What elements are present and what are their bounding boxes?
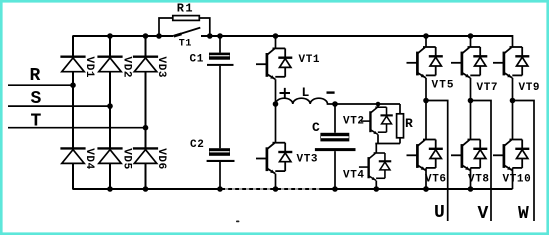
svg-text:VD5: VD5: [121, 148, 133, 170]
svg-text:R1: R1: [177, 2, 194, 16]
svg-text:VT8: VT8: [468, 174, 490, 186]
svg-text:U: U: [434, 203, 445, 223]
svg-text:R: R: [30, 66, 41, 86]
svg-text:L: L: [302, 85, 310, 100]
svg-text:VT5: VT5: [432, 79, 455, 91]
svg-text:S: S: [31, 89, 42, 109]
svg-text:V: V: [478, 204, 489, 224]
svg-text:T1: T1: [179, 39, 192, 50]
svg-text:VT1: VT1: [299, 54, 321, 66]
svg-text:VD3: VD3: [155, 57, 167, 79]
svg-text:T: T: [31, 112, 42, 132]
svg-text:C2: C2: [190, 139, 204, 151]
svg-text:VT3: VT3: [297, 154, 319, 166]
svg-text:C1: C1: [190, 54, 204, 66]
svg-text:VD1: VD1: [83, 57, 95, 79]
svg-text:VT2: VT2: [343, 116, 365, 128]
svg-text:VD6: VD6: [155, 148, 167, 170]
svg-text:VT6: VT6: [425, 174, 447, 186]
svg-text:VT7: VT7: [477, 82, 499, 94]
svg-text:R: R: [405, 116, 413, 131]
svg-text:VT9: VT9: [519, 82, 541, 94]
svg-text:VD4: VD4: [83, 148, 95, 170]
svg-text:VT10: VT10: [503, 174, 532, 186]
svg-text:W: W: [518, 204, 529, 224]
svg-text:C: C: [312, 120, 320, 135]
svg-text:VD2: VD2: [121, 57, 133, 79]
svg-text:VT4: VT4: [343, 170, 365, 182]
